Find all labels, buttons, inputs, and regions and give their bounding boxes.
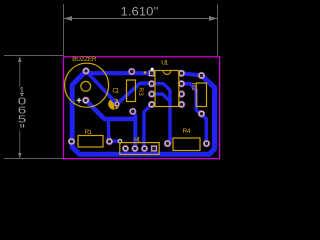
svg-text:C1: C1 <box>112 88 119 95</box>
svg-text:R3: R3 <box>137 87 144 96</box>
svg-text:R1: R1 <box>85 129 93 136</box>
svg-text:BUZZER: BUZZER <box>72 56 97 63</box>
svg-text:5: 5 <box>18 115 27 126</box>
svg-text:R4: R4 <box>183 128 191 135</box>
svg-text:H1: H1 <box>134 137 141 144</box>
svg-text:U1: U1 <box>161 59 168 66</box>
svg-text:1.610'': 1.610'' <box>121 5 159 19</box>
svg-text:R2: R2 <box>190 83 197 92</box>
